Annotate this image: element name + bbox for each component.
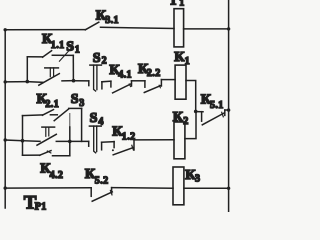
contact K5.2 blade	[92, 192, 112, 201]
contact K1.1 blade	[43, 51, 52, 58]
contact K4.2 blade	[40, 151, 52, 156]
junction dot node B	[72, 79, 76, 83]
contact K4.1 blade hook	[129, 84, 130, 87]
pushbutton S3 actuator stems	[46, 127, 49, 136]
wire node B to S2	[74, 80, 89, 82]
junction dot node A'	[21, 139, 25, 143]
contact K4.1 right stub	[131, 81, 133, 86]
contact K4.2 branch bottom-right wire	[53, 155, 70, 157]
svg-text:2: 2	[102, 56, 107, 67]
contact K1.1 branch top-left wire	[27, 56, 43, 58]
wire S3 right terminal rung segment	[56, 140, 88, 142]
contact K5.1 blade tick	[222, 112, 224, 117]
contact K4.2 branch right leg upper part	[69, 127, 71, 141]
pushbutton S3 actuator bar	[42, 126, 55, 128]
svg-text:2: 2	[183, 116, 188, 127]
contact K1.1 branch top-right wire	[52, 54, 73, 56]
junction dot T1-bus	[227, 27, 230, 30]
contact K1.2 blade	[113, 147, 133, 154]
wire K1 coil to K5.1 junction	[186, 81, 196, 112]
junction dot K4.2 right leg on rung	[68, 140, 72, 144]
S3 right terminal stub vertical	[69, 114, 71, 128]
junction dot rung2 bus	[3, 80, 6, 83]
svg-text:4.1: 4.1	[118, 69, 132, 80]
junction dot node A	[26, 80, 30, 84]
relay coil K3	[173, 167, 184, 205]
contact K1.2 left stub dot	[112, 149, 114, 151]
contact K5.1 left segment	[196, 111, 203, 113]
svg-text:К: К	[173, 110, 184, 125]
contact K3.1 blade	[85, 22, 99, 30]
contact K1.2 blade tick	[132, 145, 134, 150]
contact K2.2 left stub	[144, 81, 146, 87]
contact K2.1 tick wire	[50, 114, 57, 116]
contact K2.1 branch right leg	[81, 108, 83, 141]
contact K2.1 branch left leg	[22, 116, 24, 141]
rung 4: bus to K5.2	[5, 187, 91, 189]
top rung right segment to T1 coil	[101, 27, 175, 28]
contact K5.1 blade	[202, 113, 224, 125]
wire rung2 node A to S1 break	[27, 81, 43, 84]
pushbutton S2 left stub	[88, 81, 90, 86]
svg-text:5.2: 5.2	[95, 176, 109, 187]
pushbutton S1 actuator bar	[45, 67, 59, 69]
svg-text:4: 4	[98, 117, 103, 128]
junction dot K5.1 right bus	[227, 108, 230, 111]
contact K4.1 left stub	[110, 81, 112, 87]
pushbutton S1 blade	[39, 74, 60, 86]
svg-text:2.2: 2.2	[147, 68, 161, 79]
contact K5.1 left stub	[201, 112, 203, 122]
contact K2.1 blade	[42, 110, 53, 116]
wire K2.2 to K1 coil	[161, 79, 175, 81]
contact K2.2 blade hook	[159, 85, 160, 88]
svg-text:1.1: 1.1	[51, 40, 65, 51]
relay coil T1	[174, 9, 184, 47]
pushbutton S4 plunger	[94, 126, 97, 153]
contact K4.1 blade	[113, 84, 132, 93]
svg-text:1: 1	[179, 0, 184, 8]
contact K4.2 blade hook	[47, 151, 51, 153]
right bus	[228, 0, 230, 212]
relay coil K2	[174, 122, 185, 159]
wire K4.1 to K2.2	[132, 80, 145, 82]
rung 2: bus to node A	[5, 81, 27, 83]
left bus	[4, 30, 6, 208]
wire K5.2 to K3 coil	[112, 187, 173, 190]
contact K5.2 right stub	[111, 188, 113, 194]
contact K1.2 left stub	[113, 142, 115, 148]
svg-text:1: 1	[75, 45, 80, 56]
top rung left segment	[5, 29, 85, 31]
svg-text:3.1: 3.1	[105, 15, 119, 26]
contact K1.1 branch right leg	[72, 55, 74, 80]
wire node A' to S3 break	[23, 140, 41, 143]
pushbutton S2 actuator bar	[90, 64, 102, 66]
svg-text:Т: Т	[169, 0, 179, 9]
contact K5.1 right segment	[225, 109, 229, 111]
pushbutton S2 right stub	[101, 82, 103, 89]
svg-text:S: S	[90, 111, 98, 126]
contact K4.2 branch right leg lower part	[69, 141, 71, 155]
wire K1.2 to K2 coil	[134, 139, 174, 141]
wire K3 coil to right bus	[184, 187, 229, 189]
contact K4.2 branch left leg	[22, 141, 24, 156]
pushbutton S2 plunger	[94, 65, 97, 91]
svg-text:S: S	[93, 51, 101, 66]
wire rung3 to S4 left stub	[88, 141, 90, 146]
contact K1.2 right stub	[133, 140, 135, 150]
contact K2.2 right stub	[160, 80, 162, 86]
wire S2 to K4.1	[102, 80, 111, 83]
svg-text:4.2: 4.2	[50, 170, 64, 181]
svg-text:S: S	[71, 92, 79, 107]
svg-text:Р1: Р1	[35, 202, 47, 213]
svg-text:1: 1	[185, 56, 190, 67]
junction dot top-left	[3, 28, 6, 31]
contact K1.1 branch left leg	[26, 57, 28, 82]
svg-text:3: 3	[195, 174, 200, 185]
pushbutton S4 actuator bar	[89, 125, 101, 127]
wire T1 to right bus	[184, 28, 229, 30]
rung 3: bus to node A'	[5, 139, 22, 142]
label S1 leader line	[59, 48, 71, 61]
pushbutton S3 blade	[37, 134, 56, 145]
svg-text:3: 3	[79, 98, 84, 109]
pushbutton S1 actuator stems	[50, 68, 53, 77]
contact K5.1 right stub	[224, 110, 226, 115]
junction dot K3-bus	[227, 187, 230, 190]
svg-text:5.1: 5.1	[210, 100, 224, 111]
wire S1 right terminal	[62, 80, 74, 82]
svg-text:1.2: 1.2	[122, 131, 136, 142]
contact K5.2 left stub	[90, 188, 92, 197]
contact K2.1 branch top-right wire	[69, 107, 82, 109]
wire S4 to K1.2	[102, 141, 115, 144]
junction dot rung3 bus	[3, 138, 6, 141]
svg-text:S: S	[66, 40, 74, 55]
pushbutton S4 right stub	[101, 142, 103, 150]
contact K4.2 branch bottom-left wire	[23, 154, 40, 156]
contact K5.2 blade tick	[110, 190, 112, 195]
contact K2.1 branch top-left wire	[23, 114, 43, 117]
relay coil K1	[175, 65, 186, 99]
wire K2 coil to K5.1 junction	[185, 111, 196, 138]
junction dot rung4 bus	[3, 186, 6, 189]
contact K2.2 blade	[144, 85, 161, 92]
contact K2.1 second blade	[54, 109, 68, 121]
junction dot K5.1 left	[194, 110, 198, 114]
svg-text:2.1: 2.1	[45, 99, 59, 110]
